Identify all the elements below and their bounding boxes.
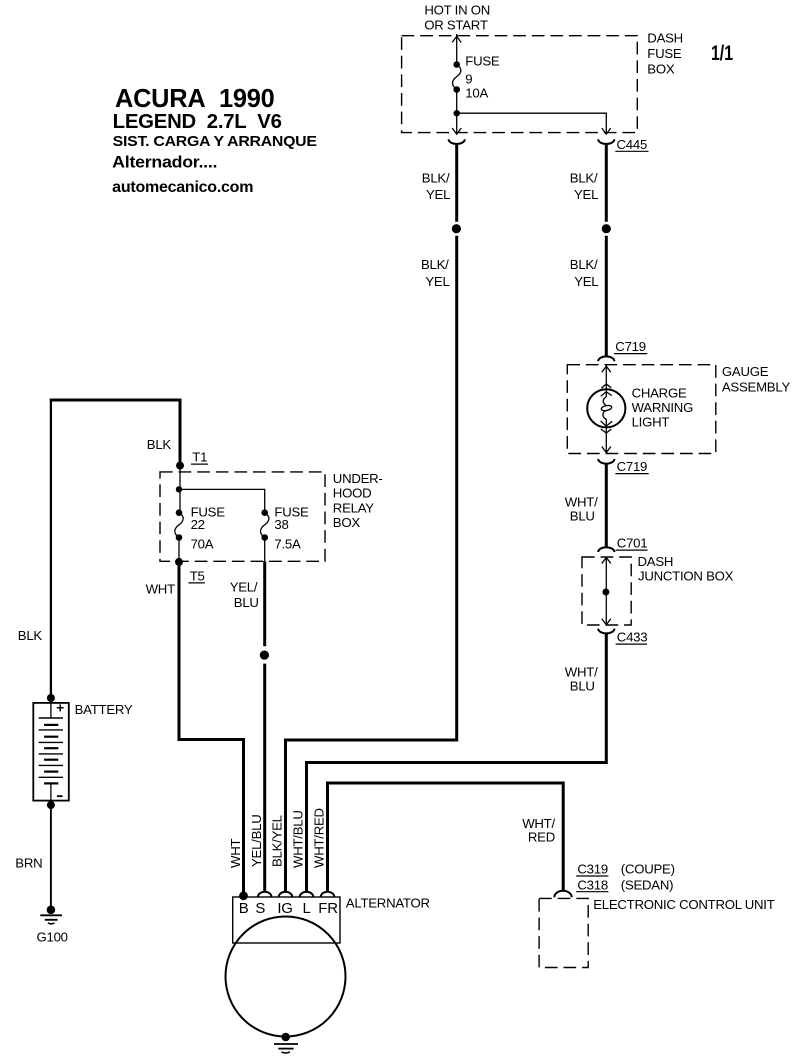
dash fuse box label xyxy=(647,30,683,76)
wire through junction box with arrows xyxy=(602,558,611,625)
label WHT/BLU upper xyxy=(565,495,598,524)
svg-text:ELECTRONIC CONTROL UNIT: ELECTRONIC CONTROL UNIT xyxy=(593,897,775,912)
label C318 (SEDAN) xyxy=(576,877,673,892)
terminal FR bump xyxy=(321,892,335,897)
arrow down at C445 left xyxy=(452,128,461,134)
alternator body circle xyxy=(226,917,346,1037)
connector C433 cup xyxy=(598,629,614,634)
node HOT IN ON OR START xyxy=(424,3,490,33)
svg-text:ASSEMBLY: ASSEMBLY xyxy=(722,379,791,394)
node T5 xyxy=(175,558,205,584)
label BLK/YEL left 1 xyxy=(422,170,450,202)
label C445 xyxy=(615,137,648,152)
splice dot right xyxy=(602,224,611,233)
ground G100 xyxy=(37,906,68,945)
under-hood relay box xyxy=(160,472,325,561)
svg-text:BLK/: BLK/ xyxy=(570,170,598,185)
svg-text:B: B xyxy=(239,900,249,917)
svg-text:LIGHT: LIGHT xyxy=(632,415,670,430)
label BLK/YEL left 2 xyxy=(421,257,450,289)
svg-text:BLK/YEL: BLK/YEL xyxy=(269,815,284,867)
svg-text:UNDER-: UNDER- xyxy=(333,471,383,486)
svg-text:BLK/: BLK/ xyxy=(422,170,450,185)
svg-text:C719: C719 xyxy=(617,459,648,474)
label YEL/BLU xyxy=(230,579,259,610)
svg-text:BOX: BOX xyxy=(647,62,675,77)
svg-text:YEL: YEL xyxy=(425,274,449,289)
label C719 bottom xyxy=(615,459,648,474)
svg-text:RED: RED xyxy=(528,829,555,844)
charge warning light bulb U1 xyxy=(587,389,625,427)
wire: fuse to junction and branch inside fuse box xyxy=(454,90,607,134)
connector C719 top cap xyxy=(598,356,614,361)
connector C701 cap xyxy=(598,547,614,552)
battery top dot xyxy=(47,694,55,702)
svg-text:C319: C319 xyxy=(577,862,608,877)
vertical wire labels at alternator xyxy=(228,808,326,868)
wire BLK/YEL left lower, to IG xyxy=(286,236,457,891)
wire BLK/YEL right upper xyxy=(605,144,608,222)
svg-text:YEL/BLU: YEL/BLU xyxy=(249,815,264,868)
svg-text:+: + xyxy=(56,700,64,715)
svg-text:7.5A: 7.5A xyxy=(274,537,301,552)
svg-text:WHT/: WHT/ xyxy=(565,665,598,680)
svg-text:HOOD: HOOD xyxy=(333,486,372,501)
svg-text:Alternador....: Alternador.... xyxy=(112,152,217,171)
svg-text:9: 9 xyxy=(465,72,472,87)
svg-text:FR: FR xyxy=(318,900,338,917)
alternator case ground xyxy=(274,1033,298,1053)
connector C445 left cup xyxy=(449,139,465,144)
svg-text:BLK/: BLK/ xyxy=(421,257,449,272)
svg-text:C433: C433 xyxy=(617,630,648,645)
svg-text:BLU: BLU xyxy=(234,595,259,610)
splice dot left xyxy=(452,224,461,233)
svg-text:(COUPE): (COUPE) xyxy=(621,862,675,877)
svg-text:SIST. CARGA Y ARRANQUE: SIST. CARGA Y ARRANQUE xyxy=(113,133,317,150)
svg-text:WARNING: WARNING xyxy=(632,400,694,415)
svg-text:S: S xyxy=(255,900,265,917)
wire BRN to ground xyxy=(50,805,52,908)
svg-text:BLK: BLK xyxy=(147,437,172,452)
svg-text:G100: G100 xyxy=(37,929,68,944)
fuse 38 7.5A xyxy=(261,504,310,551)
under-hood relay box label xyxy=(333,471,383,530)
wire BLK/YEL right lower to C719 xyxy=(605,236,608,357)
dash fuse box xyxy=(402,36,638,133)
title block xyxy=(112,83,317,196)
wire out of bulb with down arrows xyxy=(601,427,612,452)
svg-text:ACURA 1990: ACURA 1990 xyxy=(115,83,275,113)
svg-text:GAUGE: GAUGE xyxy=(722,364,769,379)
svg-text:DASH: DASH xyxy=(638,554,674,569)
wire WHT/BLU upper xyxy=(605,464,608,547)
terminal IG bump xyxy=(279,892,293,897)
connector cap at ECU xyxy=(554,891,571,898)
label C319 (COUPE) xyxy=(576,862,675,877)
svg-text:YEL: YEL xyxy=(574,274,598,289)
svg-text:BLU: BLU xyxy=(570,509,595,524)
label C433 xyxy=(616,630,648,645)
svg-text:BATTERY: BATTERY xyxy=(75,702,133,717)
svg-text:L: L xyxy=(303,900,311,917)
svg-text:BLU: BLU xyxy=(570,679,595,694)
label BLK/YEL right 1 xyxy=(570,170,598,202)
svg-text:38: 38 xyxy=(274,517,288,532)
terminal B dot xyxy=(239,891,248,900)
svg-text:LEGEND 2.7L V6: LEGEND 2.7L V6 xyxy=(113,111,282,133)
svg-text:automecanico.com: automecanico.com xyxy=(112,179,253,196)
svg-text:ALTERNATOR: ALTERNATOR xyxy=(346,896,430,911)
node T1 xyxy=(176,450,208,470)
svg-text:JUNCTION BOX: JUNCTION BOX xyxy=(638,568,734,583)
svg-text:CHARGE: CHARGE xyxy=(632,385,687,400)
fuse 22 70A xyxy=(175,504,225,551)
svg-text:BOX: BOX xyxy=(333,515,361,530)
charge warning light label xyxy=(632,385,694,429)
label BLK/YEL right 2 xyxy=(570,257,599,289)
svg-text:T5: T5 xyxy=(190,568,205,583)
dash junction box xyxy=(582,557,631,625)
fuse 9 10A xyxy=(453,54,500,101)
battery BT1 xyxy=(33,700,69,800)
svg-text:C701: C701 xyxy=(617,536,648,551)
label C719 top xyxy=(614,339,647,354)
terminal L bump xyxy=(300,892,314,897)
svg-text:T1: T1 xyxy=(192,450,207,465)
svg-text:HOT IN ON: HOT IN ON xyxy=(424,3,490,18)
wire BLK/YEL left upper xyxy=(455,144,458,222)
svg-text:WHT: WHT xyxy=(146,582,175,597)
connector C719 bottom cup xyxy=(598,459,614,464)
svg-text:YEL: YEL xyxy=(426,187,450,202)
svg-text:WHT: WHT xyxy=(228,839,243,868)
svg-text:YEL/: YEL/ xyxy=(230,579,258,594)
wires to bottom of relay box xyxy=(179,538,265,562)
arrow down at C445 right xyxy=(602,128,611,134)
svg-text:1/1: 1/1 xyxy=(711,42,733,65)
svg-text:WHT/: WHT/ xyxy=(565,495,598,510)
svg-text:IG: IG xyxy=(277,900,292,917)
label C701 xyxy=(616,536,648,551)
svg-text:10A: 10A xyxy=(465,86,488,101)
alternator connector box xyxy=(233,897,340,943)
svg-text:BLK: BLK xyxy=(18,628,43,643)
terminal S bump xyxy=(258,892,272,897)
label WHT/RED right xyxy=(522,816,555,844)
electronic control unit box xyxy=(539,898,588,967)
wire into gauge box with up arrow xyxy=(601,365,611,390)
svg-text:RELAY: RELAY xyxy=(333,501,374,516)
battery bottom dot xyxy=(47,801,55,809)
wire YEL/BLU from fuse 38 to S xyxy=(260,561,269,891)
svg-text:YEL: YEL xyxy=(574,187,598,202)
svg-text:C445: C445 xyxy=(617,137,648,152)
wire: feed into fuse box with up arrow xyxy=(452,34,461,63)
dash junction box label xyxy=(638,554,734,583)
wire WHT/BLU lower to L xyxy=(307,634,607,891)
svg-text:DASH: DASH xyxy=(647,30,683,45)
svg-text:BLK/: BLK/ xyxy=(570,257,598,272)
svg-text:C318: C318 xyxy=(577,877,608,892)
svg-text:BRN: BRN xyxy=(15,855,42,870)
svg-text:FUSE: FUSE xyxy=(647,46,682,61)
wire WHT from T5 to B xyxy=(179,562,244,893)
connector C445 right cup xyxy=(598,139,614,144)
label WHT/BLU lower xyxy=(565,665,598,694)
wire BLK battery feed xyxy=(50,400,180,465)
svg-text:WHT/BLU: WHT/BLU xyxy=(290,810,305,868)
wire inside relay box xyxy=(176,466,265,513)
svg-text:WHT/RED: WHT/RED xyxy=(311,808,326,868)
gauge assembly box xyxy=(567,365,716,454)
gauge assembly label xyxy=(722,364,791,394)
svg-text:OR START: OR START xyxy=(424,18,488,33)
svg-text:22: 22 xyxy=(191,517,205,532)
svg-text:FUSE: FUSE xyxy=(465,54,500,69)
terminal letters xyxy=(239,900,338,917)
svg-text:C719: C719 xyxy=(615,339,646,354)
wire WHT/RED from FR to ECU xyxy=(328,783,564,891)
svg-text:70A: 70A xyxy=(191,537,214,552)
svg-text:(SEDAN): (SEDAN) xyxy=(621,877,673,892)
